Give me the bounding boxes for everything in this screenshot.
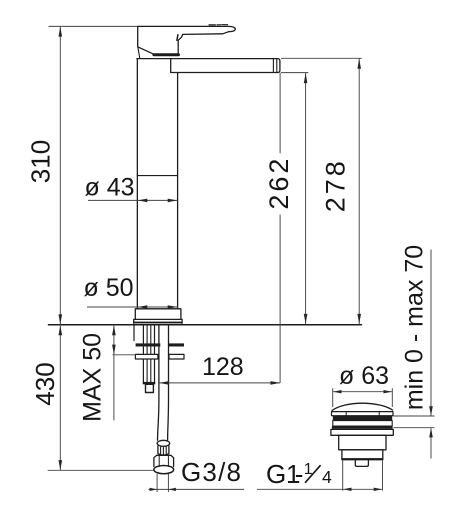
svg-text:262: 262 xyxy=(264,156,294,210)
dimension line 430 xyxy=(59,325,61,470)
min0-max70 upper reference line xyxy=(394,415,435,417)
lever top dash detail 2 xyxy=(217,24,221,26)
extension line top (spout top level, left) xyxy=(49,25,138,27)
lower mounting nut flange left part xyxy=(135,354,158,359)
base collar xyxy=(135,309,181,320)
arrow ø63 right xyxy=(384,390,393,393)
arrow 278 top xyxy=(357,59,361,69)
svg-text:310: 310 xyxy=(26,140,56,183)
lower mounting nut flange right part xyxy=(169,354,184,359)
threaded shank line 2 xyxy=(146,326,148,383)
arrow ø63 left xyxy=(333,390,342,393)
column left edge xyxy=(136,59,138,309)
arrow 310 bottom xyxy=(59,314,63,324)
G3/8 extension tick right xyxy=(167,474,169,492)
upper horseshoe washer right part xyxy=(169,343,184,346)
mixer lever handle outline xyxy=(138,26,236,53)
svg-text:ø 63: ø 63 xyxy=(339,362,389,390)
top plate notch right xyxy=(378,412,380,416)
svg-text:MAX 50: MAX 50 xyxy=(78,333,106,422)
collar ridge line 3 xyxy=(165,447,167,455)
base plate xyxy=(134,319,182,323)
svg-text:4: 4 xyxy=(322,467,332,487)
drain valve bottom tab xyxy=(355,460,368,467)
threaded shank line 1 xyxy=(142,326,144,383)
arrow ø43 right xyxy=(168,199,178,203)
G1-1/4 extension tick right xyxy=(382,461,384,491)
collar ridge line 1 xyxy=(160,447,162,455)
drain valve dark ring (upper) xyxy=(333,416,392,421)
spout end cap line 2 xyxy=(276,59,278,73)
shank tail square xyxy=(146,384,154,392)
deck hole edge line xyxy=(133,326,135,341)
hose connector ridged collar xyxy=(158,446,169,455)
arrow 430 bottom xyxy=(59,460,63,470)
arrow G1-1/4 right xyxy=(374,488,383,491)
hex nut face line right xyxy=(167,456,169,467)
upper horseshoe washer left part xyxy=(136,343,161,346)
arrow MAX50 bottom xyxy=(112,345,116,355)
dimension line ø43 xyxy=(88,199,177,201)
dimension line min0-max70 upper xyxy=(430,250,432,416)
arrow 310 top xyxy=(59,27,63,37)
G3/8 hex nut xyxy=(154,455,174,466)
column right edge xyxy=(177,73,179,309)
counter / deck line xyxy=(49,324,362,326)
drain valve body xyxy=(339,435,386,450)
threaded shank line 4 xyxy=(154,326,156,383)
column section line (ø43 reference) xyxy=(137,175,177,177)
dimension line G3/8 xyxy=(149,488,245,490)
arrow MAX50 top xyxy=(112,325,116,335)
spout outline xyxy=(137,59,280,73)
lever pivot tick xyxy=(177,35,178,41)
handle skirt sliver line xyxy=(138,47,140,58)
top plate notch left xyxy=(345,412,347,416)
svg-text:ø 43: ø 43 xyxy=(85,173,135,201)
extension line spout top to 278 xyxy=(281,57,362,59)
drain valve lower flange xyxy=(331,429,393,435)
G1-1/4 extension tick left xyxy=(342,461,344,491)
lever top dash detail 3 xyxy=(222,24,228,26)
threaded shank line 3 xyxy=(150,326,152,383)
arrow 278 bottom xyxy=(357,314,361,324)
base plate bottom thick edge xyxy=(134,322,182,324)
extension line spout end down (upper part) xyxy=(279,73,281,154)
lever top dash detail 1 xyxy=(209,24,215,26)
drain valve dark ring (lower) xyxy=(332,426,393,429)
threaded step bottom thick edge xyxy=(342,458,383,460)
dimension line 278 xyxy=(358,58,360,324)
hex nut face line left xyxy=(158,456,160,467)
supply hose left edge xyxy=(158,326,159,441)
drain valve dome cap xyxy=(332,403,393,411)
supply hose right edge xyxy=(167,326,170,441)
arrow 262 bottom xyxy=(304,314,308,324)
MAX 50 lower reference line xyxy=(113,354,136,356)
svg-text:min 0 - max 70: min 0 - max 70 xyxy=(401,245,429,410)
ø63 extension tick right xyxy=(391,388,393,407)
arrow 430 top xyxy=(59,325,63,335)
dimension line ø50 xyxy=(87,306,178,308)
arrow ø50 left xyxy=(138,305,148,309)
svg-text:128: 128 xyxy=(202,353,244,381)
min0-max70 lower reference line xyxy=(394,427,435,429)
svg-text:G: G xyxy=(266,459,286,489)
arrow min0max70 up xyxy=(429,428,433,438)
hex nut bottom ellipse xyxy=(154,466,174,474)
dimension line 128 xyxy=(159,382,280,384)
extension line bottom reference (hose end) xyxy=(48,469,154,471)
collar ridge line 2 xyxy=(162,447,164,456)
spout end cap line 1 xyxy=(272,59,274,73)
G3/8 extension tick left xyxy=(156,474,158,492)
drain valve top plate xyxy=(332,412,394,416)
arrow ø50 right xyxy=(168,305,178,309)
arrow G3/8 left xyxy=(150,488,158,491)
shank bottom thick edge xyxy=(143,382,156,384)
svg-text:G3/8: G3/8 xyxy=(181,457,242,487)
dimension line 262 xyxy=(305,73,307,325)
dimension line MAX 50 xyxy=(113,325,115,421)
arrow min0max70 down xyxy=(429,406,433,416)
hose crimp ring xyxy=(157,440,170,446)
dimension line ø63 xyxy=(333,391,393,393)
extension line spout end down (lower part) xyxy=(279,215,281,383)
handle body left edge and skirt slope xyxy=(138,26,156,55)
dimension line 310 xyxy=(59,26,61,324)
arrow ø43 left xyxy=(138,199,148,203)
svg-text:430: 430 xyxy=(30,362,60,405)
dimension line G1-1/4 xyxy=(257,488,382,490)
ø63 extension tick left xyxy=(332,388,334,407)
svg-text:-: - xyxy=(295,459,304,489)
drain valve middle ring xyxy=(333,421,392,426)
extension line spout bottom to 262 xyxy=(281,72,308,74)
arrow G1-1/4 left xyxy=(343,488,352,491)
dimension line min0-max70 lower xyxy=(430,428,432,458)
svg-text:278: 278 xyxy=(320,158,350,212)
arrow 262 top xyxy=(304,73,308,83)
arrow 128 left xyxy=(159,381,169,385)
drain valve threaded step xyxy=(342,450,383,460)
arrow 128 right xyxy=(271,381,281,385)
label 1/4 slash xyxy=(305,465,321,483)
arrow G3/8 right xyxy=(168,488,176,491)
svg-text:ø 50: ø 50 xyxy=(84,274,134,302)
handle skirt bottom bar xyxy=(154,53,179,56)
